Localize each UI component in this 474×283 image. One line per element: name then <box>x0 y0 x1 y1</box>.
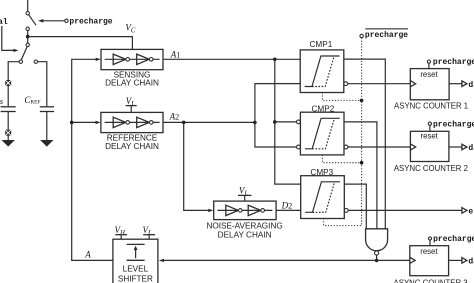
svg-text:LEVEL: LEVEL <box>123 265 149 274</box>
wire CMP3 true output to NOR <box>344 184 366 229</box>
wire counter 1 output <box>449 83 462 85</box>
svg-text:precharge: precharge <box>433 120 474 129</box>
wire top feed into switch S1 <box>27 0 29 12</box>
wire A2 to CMP1 lower input <box>255 84 300 123</box>
wire to ground <box>7 136 9 141</box>
svg-text:A1: A1 <box>170 49 181 59</box>
wire A2 to CMP2 lower input <box>255 122 297 147</box>
output bubble CMP1 <box>344 82 348 86</box>
svg-text:reset: reset <box>421 132 439 141</box>
wire Cref to ground <box>46 112 48 141</box>
node A1 to CMP2 junction <box>273 120 277 124</box>
async counter 2 <box>410 131 449 161</box>
level shifter icon <box>127 244 145 260</box>
reference delay chain U2 <box>101 112 163 132</box>
wire Cs down <box>7 112 9 130</box>
svg-text:D2: D2 <box>281 201 293 211</box>
node Vc junction <box>26 35 30 39</box>
supply tap VL (noise chain) <box>238 185 251 201</box>
svg-text:A: A <box>84 249 91 259</box>
clock input triangle counter 1 <box>410 81 415 87</box>
svg-text:DELAY CHAIN: DELAY CHAIN <box>218 231 272 240</box>
output terminal counter 3 <box>462 258 467 264</box>
svg-text:reset: reset <box>420 70 438 79</box>
dotted precharge stub CMP1 <box>322 93 361 101</box>
async counter 1 <box>410 69 449 100</box>
junction precharge/CMP1 <box>360 99 364 103</box>
svg-text:SHIFTER: SHIFTER <box>118 275 153 283</box>
input bubble CMP2 upper <box>297 120 301 124</box>
ground (Cref) <box>40 140 53 147</box>
wire G1 to counter 3 <box>377 259 410 261</box>
output bubble CMP2 <box>344 145 348 149</box>
precharge terminal counter 3 <box>428 237 431 246</box>
wire to Cref <box>38 62 47 106</box>
async counter 3 <box>410 246 449 276</box>
capacitor Cref <box>40 107 54 112</box>
svg-text:DELAY CHAIN: DELAY CHAIN <box>105 142 159 151</box>
supply tap VL (level shifter) <box>143 225 156 239</box>
wire D2 <box>276 209 301 211</box>
inverter chain (sensing) <box>105 54 160 64</box>
output terminal counter 2 <box>462 144 467 150</box>
sensing delay chain U1 <box>101 49 163 69</box>
sensor element (bottom) <box>5 130 11 136</box>
precharge terminal counter 1 <box>427 60 430 69</box>
clock input triangle counter 2 <box>410 144 415 150</box>
svg-text:DELAY CHAIN: DELAY CHAIN <box>105 79 159 88</box>
wire A feedback (vertical + to level shifter) <box>72 59 113 260</box>
clock input triangle counter 3 <box>410 257 415 263</box>
wire CMP1 true output to NOR <box>344 59 386 229</box>
wire counter 2 output <box>449 146 462 148</box>
svg-text:data: data <box>468 144 474 153</box>
output terminal (CMP3 row) <box>462 208 467 214</box>
svg-text:CMP3: CMP3 <box>310 168 333 177</box>
wire G1 output stub <box>376 255 378 260</box>
junction precharge/CMP2 <box>360 161 364 165</box>
wire CMP2 true output to NOR <box>344 122 377 229</box>
svg-text:precharge: precharge <box>69 18 112 27</box>
inverter chain (noise) <box>217 205 272 215</box>
svg-text:ASYNC COUNTER 3: ASYNC COUNTER 3 <box>394 279 468 283</box>
svg-text:reset: reset <box>420 247 438 256</box>
svg-text:signal: signal <box>0 18 8 27</box>
precharge terminal counter 2 <box>428 122 431 131</box>
reference chain input arrowhead <box>96 121 101 124</box>
wire to sensor branch <box>8 62 19 80</box>
noise chain input arrowhead <box>208 209 213 212</box>
wire A1 <box>163 58 300 60</box>
node A2 noise branch junction <box>182 121 186 125</box>
svg-text:precharge: precharge <box>365 31 408 40</box>
svg-text:data: data <box>468 81 474 90</box>
svg-text:data: data <box>468 258 474 267</box>
dotted precharge stub CMP2 <box>322 155 361 163</box>
wire A1 branch to CMP2 input <box>275 121 297 123</box>
supply tap VL (reference chain) <box>126 96 137 112</box>
wire CMP2 output to counter 2 <box>348 146 411 148</box>
comparator CMP3 <box>301 176 345 219</box>
wire A2 <box>163 121 255 123</box>
node A1 branch junction <box>273 58 277 62</box>
sensing chain input arrowhead <box>96 58 101 61</box>
output bubble CMP3 <box>344 209 348 213</box>
node A to reference junction <box>70 121 74 125</box>
wire CMP3 output to right terminal <box>348 209 462 211</box>
switch S1 (precharge switch) <box>26 12 36 31</box>
hysteresis symbol CMP1 <box>305 56 340 87</box>
svg-text:err: err <box>468 208 474 217</box>
svg-text:A2: A2 <box>169 112 180 122</box>
wire sensor to capacitor Cs <box>7 86 9 106</box>
ground (sensor branch) <box>2 140 15 147</box>
svg-text:precharge: precharge <box>433 235 474 244</box>
junction G1 output <box>375 259 379 263</box>
hysteresis symbol CMP3 <box>305 182 340 213</box>
signal control arrow <box>2 26 19 52</box>
precharge control arrow (top-left) <box>38 19 68 23</box>
svg-text:CMP2: CMP2 <box>312 104 335 113</box>
wire Vc to sensing chain top <box>28 37 133 50</box>
level shifter U4 <box>113 239 158 283</box>
svg-text:precharge: precharge <box>433 58 474 67</box>
inverter chain (reference) <box>105 117 160 127</box>
wire A1 branch down to CMP3 <box>275 59 301 184</box>
sensor element (top) <box>5 80 11 86</box>
svg-text:NOISE-AVERAGING: NOISE-AVERAGING <box>206 221 282 230</box>
svg-text:ASYNC COUNTER 2: ASYNC COUNTER 2 <box>394 164 468 173</box>
noise-averaging delay chain U3 <box>214 201 276 220</box>
switch S2 (signal select) <box>19 43 37 63</box>
comparator CMP1 <box>300 50 344 93</box>
NAND gate G1 (3-input, pointing down) <box>366 229 388 251</box>
wire switch S1 to node Vc <box>27 31 29 44</box>
node A2 split junction <box>253 121 257 125</box>
input bubble CMP2 lower <box>297 145 301 149</box>
capacitor Cs <box>1 107 16 112</box>
wire A2 to noise-averaging chain <box>184 122 209 210</box>
supply tap VH (level shifter) <box>115 225 128 239</box>
terminal precharge-bar <box>360 34 363 37</box>
label precharge-bar <box>365 29 408 40</box>
wire A to reference chain <box>72 121 96 123</box>
wire counter 3 output <box>449 259 462 261</box>
comparator CMP2 <box>300 112 344 155</box>
hysteresis symbol CMP2 <box>305 118 340 149</box>
svg-text:CMP1: CMP1 <box>310 40 333 49</box>
output terminal counter 1 <box>462 81 467 87</box>
level shifter input arrowhead <box>159 259 164 262</box>
dotted precharge line (vertical) <box>324 38 362 226</box>
svg-text:ASYNC COUNTER 1: ASYNC COUNTER 1 <box>394 101 468 110</box>
output bubble G1 <box>375 251 379 255</box>
wire CMP1 output to counter 1 <box>348 83 411 85</box>
wire G1 to level shifter <box>164 259 377 261</box>
